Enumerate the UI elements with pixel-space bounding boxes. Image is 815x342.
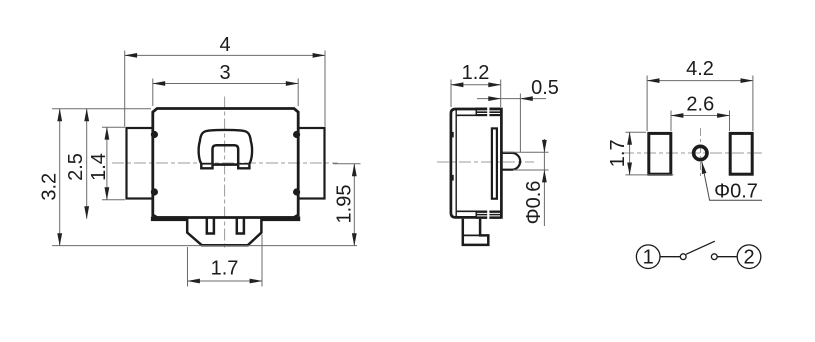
dimension text dia 0.6 — [523, 181, 545, 225]
dimension 1.2 extension lines — [450, 80, 452, 108]
weld dot bottom-left — [151, 188, 158, 195]
svg-text:1.2: 1.2 — [462, 62, 490, 84]
dimension text 1.4 — [88, 153, 110, 181]
plunger dia extension top — [503, 151, 549, 153]
left bottom pin — [207, 219, 214, 234]
svg-text:1.7: 1.7 — [607, 139, 629, 167]
dimension 0.5 arrow right — [520, 98, 546, 100]
dimension 3.2 extension lines — [52, 108, 151, 110]
dimension 2.6 extension lines — [670, 111, 672, 132]
dimension 4 line — [125, 54, 325, 56]
plunger dia extension bottom — [513, 169, 549, 171]
actuator outer shell — [199, 130, 252, 168]
dimension text 3.2 — [39, 173, 61, 201]
front plate bar — [492, 128, 497, 198]
right terminal tab — [298, 128, 324, 199]
dimension 1.7 pad line — [629, 132, 631, 175]
dimension 0.5 arrow left — [477, 98, 501, 100]
wire 1 — [660, 256, 680, 258]
actuator bottom contact line — [213, 163, 239, 166]
left edge weld tick top — [451, 132, 454, 138]
weld dot top-left — [151, 131, 158, 138]
plunger — [502, 153, 521, 170]
svg-text:1.7: 1.7 — [211, 258, 239, 280]
svg-text:0.5: 0.5 — [531, 77, 559, 99]
centerline horizontal land pattern — [622, 152, 762, 154]
svg-text:2.6: 2.6 — [686, 94, 714, 116]
centerline horizontal front view — [112, 162, 338, 164]
actuator foot top line left — [202, 163, 211, 165]
centerline vertical front view — [224, 97, 226, 249]
dimension 0.5 middle segment — [501, 98, 521, 100]
bottom cover band upper edge — [456, 210, 500, 212]
bottom terminal foot — [463, 219, 489, 245]
left edge weld tick bottom — [451, 175, 454, 181]
dimension text 1.7 pads — [607, 139, 629, 167]
terminal 1 circle — [636, 245, 660, 269]
svg-text:4.2: 4.2 — [686, 58, 714, 80]
svg-text:1.4: 1.4 — [88, 153, 110, 181]
dimension 3 extension lines — [152, 79, 154, 107]
centerline horizontal side view — [437, 161, 534, 163]
dimension 3 line — [153, 83, 298, 85]
terminal bend line — [464, 234, 480, 236]
dimension 1.7 bottom line — [188, 280, 263, 282]
dimension 1.4 extension lines — [102, 126, 125, 128]
top cover band lower edge — [456, 114, 500, 116]
right pad — [730, 133, 752, 174]
dimension 0.5 extension line — [519, 94, 521, 153]
dimension 1.95 line — [353, 164, 355, 246]
contact left — [680, 254, 686, 260]
dimension 1.2 line — [451, 84, 501, 86]
dimension 2.5 line — [86, 109, 88, 219]
dimension text 2.5 — [65, 153, 87, 181]
weld dot bottom-right — [293, 188, 300, 195]
dimension 1.7 bottom extension lines — [187, 247, 189, 287]
svg-text:4: 4 — [219, 34, 230, 56]
base plate bar left — [151, 216, 187, 221]
svg-text:2: 2 — [743, 247, 754, 269]
side inner left line — [455, 110, 457, 217]
svg-text:3: 3 — [219, 62, 230, 84]
centerline vertical land pattern — [700, 128, 702, 179]
dia 0.6 middle segment — [543, 152, 545, 170]
dimension 1.7 pad extension lines — [626, 131, 647, 133]
wire 2 — [717, 256, 737, 258]
dimension 4 extension lines — [124, 51, 126, 127]
right bottom pin — [237, 219, 244, 234]
switch body outline — [153, 109, 298, 218]
actuator foot top line right — [239, 163, 248, 165]
dimension 3.2 line — [59, 109, 61, 246]
dimension 4.2 line — [647, 80, 753, 82]
actuator inner button — [213, 145, 239, 164]
dia 0.6 arrow top — [543, 139, 545, 152]
dia 0.6 arrow bottom — [543, 170, 545, 226]
terminal 2 circle — [737, 245, 761, 269]
weld dot top-right — [293, 131, 300, 138]
dimension 1.95 extension line top — [333, 163, 361, 165]
top crimp hatch block — [476, 108, 501, 117]
left terminal tab — [127, 128, 153, 199]
svg-text:1: 1 — [643, 247, 654, 269]
svg-text:Φ0.6: Φ0.6 — [523, 181, 545, 225]
side body outline — [451, 109, 502, 217]
svg-text:Φ0.7: Φ0.7 — [714, 181, 758, 203]
svg-text:1.95: 1.95 — [334, 185, 356, 224]
center hole — [694, 146, 707, 159]
dimension 4.2 extension lines — [646, 76, 648, 132]
leader dia 0.7 — [702, 162, 762, 201]
dimension 1.4 line — [106, 127, 108, 200]
dimension 2.6 line — [671, 115, 730, 117]
base plate bar right — [261, 216, 300, 221]
bottom crimp hatch block — [476, 211, 501, 219]
switch lever — [686, 241, 715, 254]
svg-text:3.2: 3.2 — [39, 173, 61, 201]
contact right — [711, 254, 717, 260]
svg-text:2.5: 2.5 — [65, 153, 87, 181]
bottom boss trapezoid — [187, 219, 261, 246]
dimension text 1.95 — [334, 185, 356, 224]
left pad — [649, 133, 671, 174]
